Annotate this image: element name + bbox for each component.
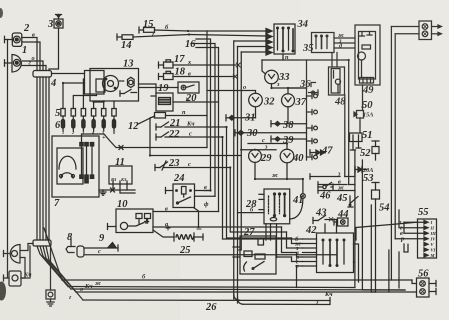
- wires into 55: [404, 221, 424, 223]
- wire diagonal to bus b: [44, 228, 62, 280]
- switch 21: [156, 122, 169, 130]
- gauge 37: [282, 88, 295, 124]
- wire riser B2 to 34: [238, 46, 266, 48]
- wires into 53 area: [310, 176, 340, 178]
- wire riser x399: [398, 252, 400, 288]
- wire п bus: [262, 59, 349, 61]
- lighter 52: [372, 141, 379, 160]
- wire 34 bottom stub: [282, 54, 284, 60]
- switch 36: [288, 83, 318, 96]
- switch 45: [348, 196, 358, 207]
- switch 43: [313, 216, 331, 224]
- wire 28 to 27 b: [270, 224, 272, 240]
- wire 15 to junction 16: [155, 30, 189, 31]
- socket 51: [350, 133, 363, 150]
- coil 19: [151, 93, 173, 111]
- wire bundle down from connector 4: [36, 77, 38, 240]
- fuse outputs 6: [61, 120, 115, 129]
- generator terminals: [80, 143, 94, 183]
- sensor with ground bottom-left: [46, 246, 55, 306]
- fuel sender 31: [226, 107, 256, 121]
- wires headlamp lower to junction box: [20, 244, 33, 251]
- switch 22: [156, 132, 169, 140]
- wire 13 to 20: [139, 87, 179, 89]
- generator+regulator 7: [52, 136, 99, 197]
- light switch 28: [259, 189, 290, 224]
- junction x mark: [119, 146, 123, 150]
- wire 18 to right (в): [173, 76, 233, 78]
- column terminal c: [307, 125, 318, 130]
- wire 13 to 19: [139, 84, 157, 93]
- relay 17: [159, 60, 174, 68]
- wire 43 line into 42 top: [331, 220, 337, 234]
- wire 22 to riser (с): [165, 136, 223, 138]
- arrows into 34: [266, 29, 272, 56]
- heater switch 27: [233, 236, 276, 274]
- connector block 34: [274, 24, 295, 54]
- relay 18: [159, 71, 174, 79]
- socket 44: [334, 218, 348, 226]
- connector block 35: [312, 33, 335, 53]
- ground symbol: [100, 190, 106, 195]
- scan smudge bottom-left: [0, 282, 6, 301]
- wire bus upper to 56: [62, 279, 412, 281]
- wire 35 to 48 a: [331, 53, 333, 68]
- bus wire ж: [68, 287, 352, 288]
- wires from 11 down: [112, 184, 114, 190]
- wire from 2 to connector 4: [22, 38, 37, 71]
- distributor 12: [138, 113, 166, 125]
- wire ж to 41: [255, 178, 303, 180]
- wire riser B1 to 34: [234, 40, 265, 42]
- wire starter to bus (с): [84, 254, 336, 256]
- starter switch 9: [77, 243, 118, 258]
- pins 42 left: [303, 239, 317, 266]
- battery 25: [153, 226, 203, 241]
- wire 48 down: [344, 95, 346, 177]
- wire 28 to 27 a: [265, 224, 267, 240]
- wire 24 right upper (в): [195, 190, 211, 192]
- switch 46: [318, 183, 333, 191]
- wire diagonal to bus г: [46, 246, 83, 300]
- wire 10 to right (в): [153, 211, 219, 213]
- wire 35 to 48 b: [336, 53, 338, 68]
- wire 33 to right column (з): [272, 87, 307, 89]
- connector 56: [417, 278, 437, 297]
- wire riser A1: [206, 31, 208, 148]
- wire riser to 42 pin б: [223, 137, 303, 239]
- wire 42 to risers right: [354, 244, 359, 282]
- wire б into 28: [238, 212, 265, 214]
- wire с to gauge 40: [248, 143, 287, 145]
- wire 14 to junction 16: [133, 35, 189, 38]
- ashtray lamp 54: [372, 183, 380, 293]
- brake switch 8: [66, 240, 75, 253]
- junction box bottom-left: [33, 240, 51, 246]
- bus wire о: [76, 291, 417, 293]
- connector block top right: [391, 21, 441, 40]
- headlamp 1: [5, 55, 22, 73]
- wire riser x389: [388, 250, 390, 292]
- wire from 3 to connector 4: [49, 28, 59, 71]
- riser curves into bottom bus: [234, 294, 240, 300]
- oil sender 30: [235, 130, 307, 136]
- switch 20: [178, 82, 199, 93]
- gauge 33: [265, 70, 279, 88]
- relay 24: [166, 184, 199, 227]
- wire 19 to riser (к): [173, 101, 219, 103]
- wire riser A3: [191, 44, 215, 197]
- column terminal e: [307, 154, 318, 159]
- connector block 4: [33, 71, 52, 78]
- bus wire Кч: [71, 289, 405, 290]
- horn 10: [108, 209, 154, 233]
- right column wire: [306, 60, 308, 160]
- wire plus bus from generator: [82, 134, 208, 148]
- wire from 2 lower to connector 4: [22, 42, 40, 71]
- wire 12 down to lower bus: [150, 118, 241, 156]
- gauge 40: [280, 144, 294, 180]
- wire 24 right lower (ф): [195, 195, 216, 197]
- tail lamp lower: [4, 271, 22, 286]
- wire 49 down to 50: [362, 85, 364, 111]
- wire 21 to riser (Кч): [165, 126, 227, 128]
- wire diagonal to bus о: [43, 246, 76, 292]
- wire regulator to ground line: [99, 189, 135, 191]
- lamp 41: [290, 179, 306, 219]
- wire headlamp1 low beam: [22, 66, 46, 71]
- fuse 50: [354, 111, 364, 134]
- wire о to 32: [207, 91, 256, 94]
- wire riser B3 to 34: [241, 51, 265, 53]
- wire tail lamp to junction box: [21, 246, 30, 278]
- bus wire г: [83, 299, 330, 302]
- lamp 38: [271, 121, 307, 127]
- wire diagonal to bus ж: [37, 246, 68, 287]
- lamp 39: [271, 136, 307, 142]
- column terminal b: [307, 109, 318, 114]
- connector block 42: [317, 233, 354, 273]
- scan smudge top-left: [0, 8, 3, 18]
- wire fuse1 feed: [63, 83, 85, 109]
- wire headlamp1 high beam: [23, 61, 44, 71]
- wires into 56: [390, 27, 392, 281]
- wire fuse2 feed: [73, 94, 96, 109]
- flasher 48: [329, 67, 345, 95]
- wiper motor 49: [355, 25, 380, 85]
- lamp 3: [54, 15, 63, 29]
- wires 35 to 49: [334, 37, 355, 39]
- gauge 29: [249, 150, 262, 179]
- wire connector 4 to 13: [52, 73, 85, 75]
- wire 17 to right (х): [173, 64, 236, 66]
- sidelight 2: [5, 33, 22, 46]
- wire fuse6 feed: [113, 101, 115, 109]
- wires right lower verticals: [354, 150, 356, 288]
- wire fuse5 feed: [103, 101, 105, 109]
- wire 33 top feed: [262, 60, 266, 74]
- resistor 15: [139, 27, 155, 33]
- connector 55: [418, 219, 437, 258]
- column terminal d: [307, 138, 318, 143]
- gauge 32: [249, 93, 263, 107]
- wire з to gauge 29: [241, 149, 276, 151]
- wire 12 to right (п): [166, 115, 208, 117]
- nested feed wires to 42: [277, 256, 292, 258]
- ignition switch 13: [85, 69, 139, 102]
- wire fuse4 feed: [94, 101, 104, 109]
- resistor 14: [117, 34, 133, 40]
- wire diagonal to bus Кч: [40, 246, 71, 289]
- column terminal a: [307, 93, 318, 98]
- relay box 11: [109, 166, 132, 184]
- junction 16 wires to right: [188, 30, 265, 32]
- fuse block 5: [61, 109, 116, 117]
- wire 10 to right (а): [153, 226, 282, 228]
- ground wire left: [7, 40, 9, 279]
- fuse 53: [355, 167, 367, 173]
- wire fuse3 feed: [82, 79, 84, 109]
- wire riser A4: [196, 48, 219, 212]
- wire 23 to riser (с): [164, 167, 230, 169]
- headlamp lower: [4, 245, 21, 264]
- fuse pins: [63, 116, 114, 131]
- switch 47: [310, 150, 325, 155]
- switch 23: [155, 161, 168, 171]
- x mark on ground line: [111, 188, 115, 192]
- wire riser A2: [196, 39, 211, 191]
